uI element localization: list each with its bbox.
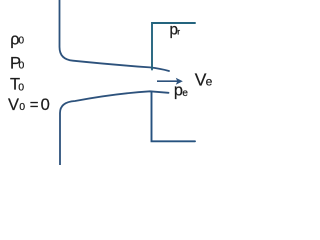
svg-text:0: 0 [41, 96, 50, 114]
receiver wall bottom [152, 92, 196, 142]
label pe (exit pressure) [174, 81, 189, 99]
label V0 = 0 (zero reservoir velocity) [8, 96, 50, 114]
svg-text:0: 0 [19, 60, 25, 72]
label rho0 (stagnation density) [10, 30, 24, 48]
label pr (receiver pressure) [170, 22, 181, 39]
svg-text:0: 0 [18, 81, 24, 93]
svg-text:0: 0 [19, 101, 25, 113]
receiver wall top (corner with pr shelf) [152, 23, 195, 70]
label Ve (exit velocity) [195, 70, 213, 90]
svg-text:V: V [8, 96, 19, 114]
svg-text:=: = [30, 97, 39, 114]
reservoir/nozzle lower wall [60, 91, 169, 166]
svg-text:e: e [206, 75, 213, 89]
exit velocity arrow [157, 78, 183, 85]
svg-text:0: 0 [19, 36, 25, 47]
svg-text:e: e [182, 88, 188, 99]
reservoir/nozzle upper wall [60, 0, 170, 71]
svg-text:r: r [177, 26, 180, 36]
label T0 (stagnation temperature) [10, 76, 24, 94]
label P0 (stagnation pressure) [10, 54, 25, 72]
